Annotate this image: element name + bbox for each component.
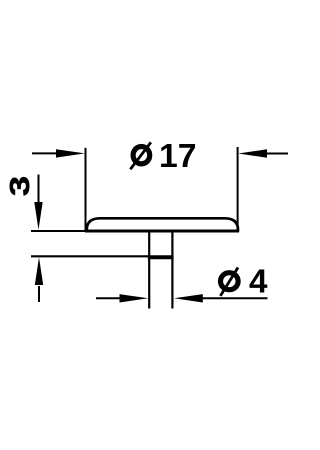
- svg-text:17: 17: [159, 138, 197, 175]
- svg-text:4: 4: [249, 264, 268, 301]
- svg-text:3: 3: [4, 176, 35, 196]
